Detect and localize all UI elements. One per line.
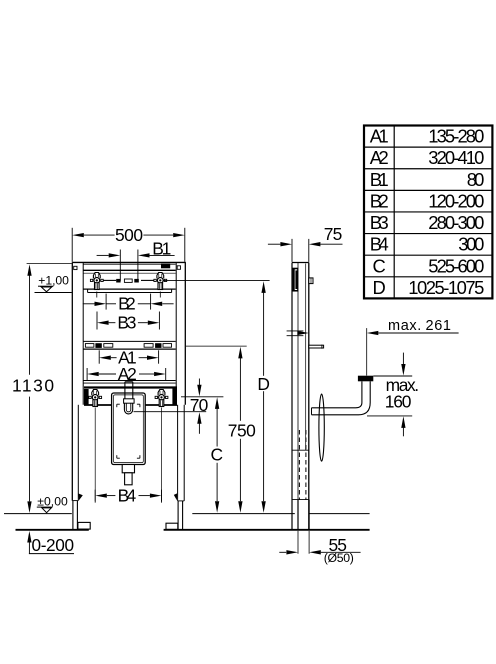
svg-text:B2: B2 (118, 294, 135, 314)
svg-text:0-200: 0-200 (32, 535, 75, 555)
svg-text:max. 261: max. 261 (388, 318, 451, 334)
svg-text:120-200: 120-200 (428, 190, 484, 211)
svg-text:A1: A1 (370, 126, 389, 147)
svg-text:500: 500 (115, 225, 143, 245)
svg-text:B2: B2 (370, 190, 389, 211)
svg-text:B4: B4 (118, 486, 137, 506)
svg-text:1025-1075: 1025-1075 (408, 277, 484, 298)
svg-text:B1: B1 (152, 238, 171, 258)
svg-text:D: D (373, 277, 386, 298)
svg-text:B3: B3 (117, 313, 136, 333)
svg-text:C: C (211, 445, 224, 465)
svg-text:A2: A2 (370, 147, 389, 168)
svg-text:160: 160 (385, 391, 412, 411)
svg-text:(Ø50): (Ø50) (324, 551, 354, 565)
svg-text:135-280: 135-280 (428, 126, 484, 147)
svg-text:A2: A2 (118, 364, 137, 384)
svg-text:C: C (373, 255, 386, 276)
svg-text:±0,00: ±0,00 (37, 494, 68, 508)
svg-text:D: D (257, 374, 270, 394)
svg-text:320-410: 320-410 (428, 147, 484, 168)
svg-text:70: 70 (190, 395, 209, 415)
svg-text:B1: B1 (370, 169, 389, 190)
svg-text:300: 300 (458, 234, 484, 255)
svg-text:80: 80 (467, 169, 485, 190)
svg-text:B4: B4 (370, 234, 389, 255)
svg-text:B3: B3 (370, 212, 389, 233)
svg-text:1130: 1130 (12, 376, 54, 396)
svg-text:+1,00: +1,00 (38, 273, 69, 287)
svg-text:75: 75 (324, 224, 343, 244)
svg-text:280-300: 280-300 (428, 212, 484, 233)
svg-text:750: 750 (228, 421, 256, 441)
svg-text:525-600: 525-600 (428, 255, 484, 276)
